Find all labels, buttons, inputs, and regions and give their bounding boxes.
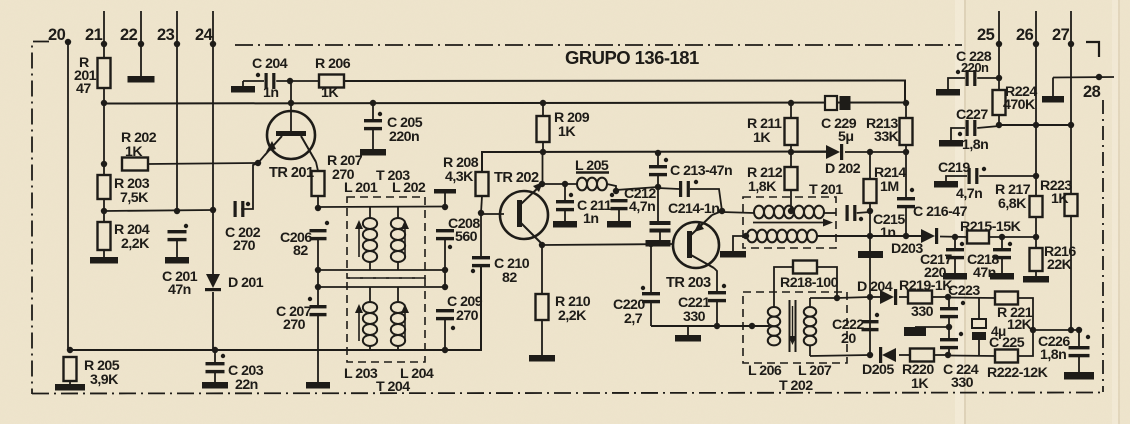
- ground C207: [306, 382, 330, 389]
- svg-text:7,5K: 7,5K: [120, 190, 149, 206]
- wire C223 to C224: [948, 315, 950, 339]
- svg-text:C227: C227: [956, 107, 988, 123]
- junction C221 bottom: [714, 323, 720, 329]
- capacitor C218: [993, 242, 1012, 259]
- wire collector bus left corner: [482, 152, 830, 173]
- svg-text:C 225: C 225: [989, 335, 1025, 351]
- wire R218 left to L206: [774, 267, 793, 307]
- diode D202: [826, 144, 843, 160]
- wire R204 to ground: [103, 250, 105, 258]
- ground C201: [165, 257, 189, 264]
- capacitor C206: [310, 221, 330, 240]
- resistor R210: [536, 294, 549, 320]
- svg-text:1K: 1K: [1051, 191, 1069, 207]
- svg-text:27: 27: [1052, 26, 1070, 44]
- core arrow L201: [355, 220, 363, 257]
- junction R213 top: [903, 100, 909, 106]
- wire T204 top row: [318, 286, 445, 288]
- module border dash-dot right: [1102, 100, 1104, 392]
- resistor R211: [785, 118, 798, 145]
- capacitor C213: [649, 158, 668, 176]
- capacitor C217: [946, 242, 964, 259]
- junction C217 top: [952, 234, 958, 240]
- svg-text:5μ: 5μ: [838, 129, 853, 145]
- inductor L202: [391, 218, 405, 262]
- wire C204 to R206: [276, 80, 319, 82]
- wire R220 out: [934, 354, 948, 356]
- resistor R202: [122, 158, 148, 171]
- wire C219 to column 26: [979, 175, 1036, 177]
- wire C227 to column 25: [977, 126, 999, 128]
- junction terminal 24: [210, 41, 216, 47]
- module border dash-dot top: [235, 44, 962, 46]
- wire C210 to ground bus corner: [445, 265, 481, 351]
- resistor R220: [910, 349, 934, 362]
- ground R205: [55, 384, 85, 391]
- capacitor C225 top stub: [978, 298, 980, 319]
- wire R214 bottom: [869, 203, 871, 211]
- wire base divider row: [104, 210, 213, 211]
- core arrow L202: [401, 220, 409, 257]
- wire C203 to ground: [214, 371, 216, 382]
- wire R212 top: [790, 152, 792, 167]
- resistor R221: [995, 292, 1018, 305]
- inductor L203: [363, 302, 377, 346]
- junction C223 top: [945, 294, 951, 300]
- capacitor C223: [940, 301, 965, 319]
- wire 28 ground stub: [1052, 78, 1054, 97]
- svg-text:1,8n: 1,8n: [962, 137, 988, 153]
- wire T201 secondary to ground: [733, 236, 746, 252]
- junction C223 C224: [946, 324, 952, 330]
- wire emitter to R202: [148, 163, 258, 164]
- wire C215 right: [857, 212, 870, 213]
- svg-text:L 206: L 206: [748, 363, 782, 379]
- svg-text:C214-1n: C214-1n: [668, 201, 719, 217]
- svg-text:270: 270: [456, 308, 479, 324]
- inductor L201 top stub: [369, 207, 371, 218]
- capacitor C215: [846, 205, 864, 221]
- capacitor decoupling: [650, 221, 671, 233]
- wire R214 top: [869, 152, 871, 179]
- svg-text:R219-1K: R219-1K: [899, 278, 953, 294]
- diode D205: [879, 347, 896, 363]
- junction C212 top: [613, 188, 619, 194]
- ground R216: [1023, 276, 1049, 283]
- svg-text:82: 82: [502, 270, 517, 286]
- inductor T201 secondary: [747, 230, 817, 243]
- capacitor C228: [956, 70, 977, 86]
- capacitor C222: [862, 313, 880, 332]
- svg-text:26: 26: [1016, 26, 1034, 44]
- svg-text:D205: D205: [862, 362, 894, 378]
- inductor L204: [391, 302, 405, 346]
- junction C216 detector: [903, 233, 909, 239]
- resistor R207: [312, 171, 325, 196]
- T202 core: [789, 300, 797, 352]
- junction D204 C222 top: [867, 294, 873, 300]
- wire D204 to R219: [899, 296, 908, 298]
- resistor R224: [993, 90, 1006, 115]
- inductor L203 bottom stub: [369, 346, 371, 350]
- svg-text:47n: 47n: [168, 282, 191, 298]
- wire C205 to ground: [372, 127, 374, 149]
- wire T201 primary out: [824, 212, 836, 214]
- junction C213 bottom: [655, 184, 661, 190]
- svg-text:220n: 220n: [389, 129, 419, 145]
- wire D203 out: [940, 236, 967, 239]
- wire C217 to ground: [954, 256, 956, 273]
- svg-text:1n: 1n: [263, 85, 278, 101]
- junction terminal 23: [174, 41, 180, 47]
- capacitor C210: [471, 256, 490, 273]
- svg-text:560: 560: [455, 229, 478, 245]
- wire TR201 collector lead: [316, 162, 318, 171]
- inductor L205 core bar: [576, 171, 609, 174]
- svg-text:20: 20: [48, 26, 66, 44]
- svg-text:L 201: L 201: [344, 180, 378, 196]
- resistor R219: [908, 291, 932, 304]
- junction R202 left: [101, 161, 107, 167]
- wire R209 top: [542, 103, 544, 116]
- svg-text:22K: 22K: [1047, 257, 1073, 273]
- capacitor C211 stub: [564, 184, 566, 201]
- ground C212: [607, 221, 631, 228]
- svg-text:33K: 33K: [874, 129, 900, 145]
- junction T201 secondary left: [743, 233, 749, 239]
- junction T203 lower left: [315, 267, 321, 273]
- wire D205 to R220: [899, 354, 910, 356]
- wire C213 node down: [657, 187, 659, 221]
- junction terminal 25: [996, 41, 1002, 47]
- ground C211: [553, 221, 577, 228]
- resistor R209: [537, 116, 550, 142]
- wire C218 to ground: [1001, 256, 1003, 273]
- svg-text:L 203: L 203: [344, 366, 378, 382]
- junction C220 top: [648, 241, 654, 247]
- transistor TR201: [264, 111, 316, 162]
- wire top audio rail: [948, 297, 995, 300]
- wire C228 to column 25: [977, 77, 999, 79]
- svg-text:T 202: T 202: [779, 378, 813, 394]
- wire bottom audio rail: [948, 355, 995, 358]
- wire R223 down: [1070, 216, 1072, 330]
- wire C211 to ground: [564, 208, 566, 222]
- wire R213 to C216: [905, 152, 907, 198]
- ground C226: [1064, 372, 1094, 380]
- capacitor C218 stub: [1001, 237, 1003, 249]
- junction R201 bus: [101, 100, 107, 106]
- junction R203 R204: [101, 208, 107, 214]
- junction R209 collector bus: [540, 149, 546, 155]
- junction C209 bottom: [442, 347, 448, 353]
- svg-text:1K: 1K: [321, 85, 339, 101]
- svg-text:22n: 22n: [235, 377, 258, 393]
- wire C204 ground stub: [242, 81, 244, 86]
- transformer T202 box: [743, 292, 847, 363]
- svg-text:330: 330: [683, 309, 706, 325]
- wire TR202 emitter down: [541, 245, 543, 294]
- wire base to TR202: [481, 213, 504, 215]
- junction terminal 27: [1068, 41, 1074, 47]
- svg-text:1K: 1K: [558, 124, 576, 140]
- svg-text:1n: 1n: [880, 225, 895, 241]
- resistor R213: [900, 118, 913, 145]
- svg-text:GRUPO 136-181: GRUPO 136-181: [565, 47, 699, 68]
- wire T203 top row: [318, 206, 445, 209]
- resistor R212: [785, 167, 798, 190]
- svg-text:20: 20: [841, 331, 856, 347]
- module border top-right corner bracket: [1086, 42, 1099, 57]
- wire C202 to TR201 emitter: [241, 163, 258, 209]
- core arrow L204: [401, 304, 409, 341]
- capacitor C205 stub: [372, 103, 374, 119]
- junction L206 return: [749, 323, 755, 329]
- wire AGC column: [869, 211, 871, 355]
- wire terminal 21 entry: [103, 11, 105, 58]
- svg-text:1,8n: 1,8n: [1040, 347, 1066, 363]
- wire TR203 emitter: [714, 268, 717, 292]
- resistor R217: [1030, 196, 1043, 217]
- inductor L203 top stub: [369, 287, 371, 302]
- wire R211 top: [790, 103, 792, 118]
- inductor L204 top stub: [397, 287, 399, 302]
- junction R224 bus: [996, 122, 1002, 128]
- wire C210 top stub: [480, 213, 482, 257]
- wire terminal 26 entry: [1035, 11, 1037, 196]
- main supply bus: [104, 103, 905, 104]
- inductor L201 bottom stub: [369, 262, 371, 270]
- svg-text:D 201: D 201: [228, 275, 264, 291]
- svg-text:270: 270: [233, 238, 256, 254]
- core arrow L203: [355, 304, 363, 341]
- wire terminal 23 entry: [176, 11, 178, 211]
- ground T201 secondary: [720, 251, 746, 258]
- ground decoupling: [646, 240, 671, 247]
- svg-text:2,7: 2,7: [624, 311, 643, 327]
- wire TR202 collector up: [542, 152, 544, 184]
- wire TR202 emitter to TR203 base: [542, 244, 674, 245]
- junction T203 bottom right: [442, 267, 448, 273]
- svg-text:21: 21: [85, 26, 103, 44]
- svg-text:4,7n: 4,7n: [956, 186, 982, 202]
- transformer T201 box: [743, 197, 836, 248]
- svg-text:330: 330: [951, 375, 974, 391]
- ground terminal 22: [128, 76, 155, 83]
- wire C219 ground stub: [946, 176, 967, 181]
- svg-text:220n: 220n: [961, 60, 989, 75]
- junction terminal 21: [101, 41, 107, 47]
- ground C205: [360, 149, 386, 156]
- junction TR202 base: [478, 210, 484, 216]
- wire node 20 down: [67, 42, 69, 350]
- resistor R216: [1030, 248, 1043, 271]
- inductor L206: [768, 307, 780, 345]
- detector wire: [817, 235, 921, 237]
- junction R207 C206: [315, 205, 321, 211]
- wire D204 left: [870, 296, 880, 298]
- junction C226 top: [1076, 327, 1082, 333]
- ground C204: [231, 86, 255, 93]
- capacitor C220: [641, 286, 660, 304]
- capacitor C224: [940, 332, 963, 350]
- wire R212 bottom: [790, 190, 792, 211]
- wire C213 bottom stub: [657, 173, 659, 187]
- capacitor C226 stub: [1078, 330, 1080, 347]
- svg-text:12K: 12K: [1007, 317, 1033, 333]
- capacitor C208: [436, 229, 454, 249]
- svg-text:R215-15K: R215-15K: [960, 219, 1022, 235]
- junction C211 top: [562, 181, 568, 187]
- capacitor C209: [436, 309, 455, 330]
- svg-text:25: 25: [977, 26, 995, 44]
- emitter return wire: [651, 325, 770, 327]
- resistor R204: [98, 222, 111, 250]
- inductor L207: [804, 307, 816, 345]
- wire mid to ground: [915, 326, 949, 328]
- wire R205 to ground: [69, 381, 71, 385]
- svg-text:C219: C219: [938, 160, 970, 176]
- transistor TR202: [500, 182, 548, 243]
- wire TR201 emitter lead: [258, 156, 264, 163]
- wire C220 down: [650, 300, 652, 326]
- ground audio mid: [904, 327, 926, 336]
- junction R214 C215: [867, 208, 873, 214]
- wire C213 top stub: [657, 153, 659, 165]
- junction AGC detector: [867, 233, 873, 239]
- junction TR201 emitter: [255, 160, 261, 166]
- capacitor C211: [556, 193, 574, 211]
- wire L207 bottom out: [810, 355, 870, 356]
- capacitor C212: [610, 193, 628, 210]
- diode D204: [880, 289, 897, 305]
- ground C227: [939, 140, 963, 147]
- capacitor C217 stub: [954, 237, 956, 249]
- svg-text:C 204: C 204: [252, 56, 288, 72]
- capacitor C219: [968, 167, 987, 184]
- ground R204: [90, 257, 118, 264]
- wire R211 to D202: [791, 151, 826, 153]
- transistor TR203: [673, 215, 719, 268]
- junction C213 bus: [655, 150, 661, 156]
- resistor R218: [793, 261, 817, 274]
- diode D201: [205, 274, 221, 291]
- wire R216 to ground: [1035, 271, 1037, 276]
- resistor R222: [995, 350, 1018, 363]
- ground C217: [943, 273, 967, 280]
- wire R213 top: [905, 103, 907, 118]
- ground C203: [202, 382, 228, 389]
- capacitor C207: [308, 297, 327, 317]
- wire C214 to collector junction: [690, 189, 722, 211]
- wire D201 to ground bus: [212, 292, 214, 350]
- junction terminal 26: [1033, 41, 1039, 47]
- wire D202 to R214: [845, 151, 906, 153]
- svg-text:TR 203: TR 203: [666, 275, 711, 291]
- node 20: [65, 39, 71, 45]
- wire R208 to base node: [481, 196, 482, 213]
- capacitor C223 stub: [948, 297, 950, 308]
- junction C205 top: [370, 100, 376, 106]
- capacitor C227: [958, 120, 977, 136]
- resistor R205: [64, 357, 77, 381]
- wire R221 to C226 node: [1018, 298, 1033, 330]
- svg-text:2,2K: 2,2K: [121, 236, 150, 252]
- wire C212 to C213 node: [616, 187, 658, 190]
- capacitor C226: [1069, 335, 1091, 358]
- inductor L202 top stub: [397, 207, 399, 218]
- wire R218 right to L207: [817, 267, 837, 298]
- svg-text:330: 330: [911, 304, 934, 320]
- wire R222 to C226 node: [1018, 331, 1033, 356]
- svg-text:23: 23: [157, 26, 175, 44]
- capacitor C214: [679, 180, 698, 197]
- wire C208 to T203: [444, 237, 446, 287]
- module border dash-dot top-left corner: [32, 42, 49, 395]
- svg-text:1n: 1n: [583, 211, 598, 227]
- junction R212 tap: [788, 208, 794, 214]
- wire C207 to ground: [317, 313, 319, 382]
- ground C219: [934, 181, 958, 188]
- ground R210: [529, 355, 555, 362]
- svg-text:R222-12K: R222-12K: [987, 365, 1049, 381]
- junction T203 top right: [442, 204, 448, 210]
- wire C201 to ground: [176, 238, 178, 258]
- wire C226 link: [1033, 329, 1079, 331]
- ground stub TR203: [687, 326, 689, 336]
- capacitor C229: [825, 96, 851, 110]
- diode D203: [921, 228, 938, 244]
- capacitor C204: [256, 73, 276, 89]
- wire C203 stub: [214, 350, 216, 362]
- ground C228: [936, 89, 960, 96]
- svg-text:24: 24: [195, 26, 214, 44]
- capacitor C225 bottom stub: [978, 340, 980, 356]
- junction C201 top: [174, 208, 180, 214]
- capacitor C205: [364, 112, 382, 131]
- junction C203 top: [212, 347, 218, 353]
- bus AGC top: [999, 124, 1071, 126]
- wire T202 to D204: [837, 297, 870, 298]
- ground TR203: [675, 335, 701, 342]
- junction L207 top: [834, 295, 840, 301]
- junction TR203 collector C214: [719, 208, 725, 214]
- svg-text:4,7n: 4,7n: [629, 199, 655, 215]
- svg-text:R218-100: R218-100: [780, 275, 839, 291]
- junction bus27: [1068, 122, 1074, 128]
- svg-text:22: 22: [120, 26, 138, 44]
- capacitor C203: [206, 354, 226, 374]
- svg-text:2,2K: 2,2K: [558, 308, 587, 324]
- junction C202 left: [210, 207, 216, 213]
- svg-text:1M: 1M: [880, 179, 899, 195]
- svg-text:3,9K: 3,9K: [90, 372, 119, 388]
- svg-text:R 206: R 206: [315, 56, 351, 72]
- wire C216 to detector: [905, 205, 907, 236]
- wire T203 bottom row: [318, 269, 445, 271]
- wire TR203 collector: [712, 211, 722, 215]
- svg-text:L 205: L 205: [575, 158, 609, 174]
- wire C226 to ground: [1078, 354, 1080, 372]
- svg-text:270: 270: [283, 317, 306, 333]
- junction TR202 emitter: [539, 242, 545, 248]
- svg-text:1K: 1K: [911, 376, 929, 392]
- inductor L202 bottom stub: [397, 262, 399, 270]
- junction R209 bus: [540, 100, 546, 106]
- svg-text:1K: 1K: [125, 144, 143, 160]
- wire R213 bottom: [905, 145, 907, 152]
- junction terminal 22: [138, 41, 144, 47]
